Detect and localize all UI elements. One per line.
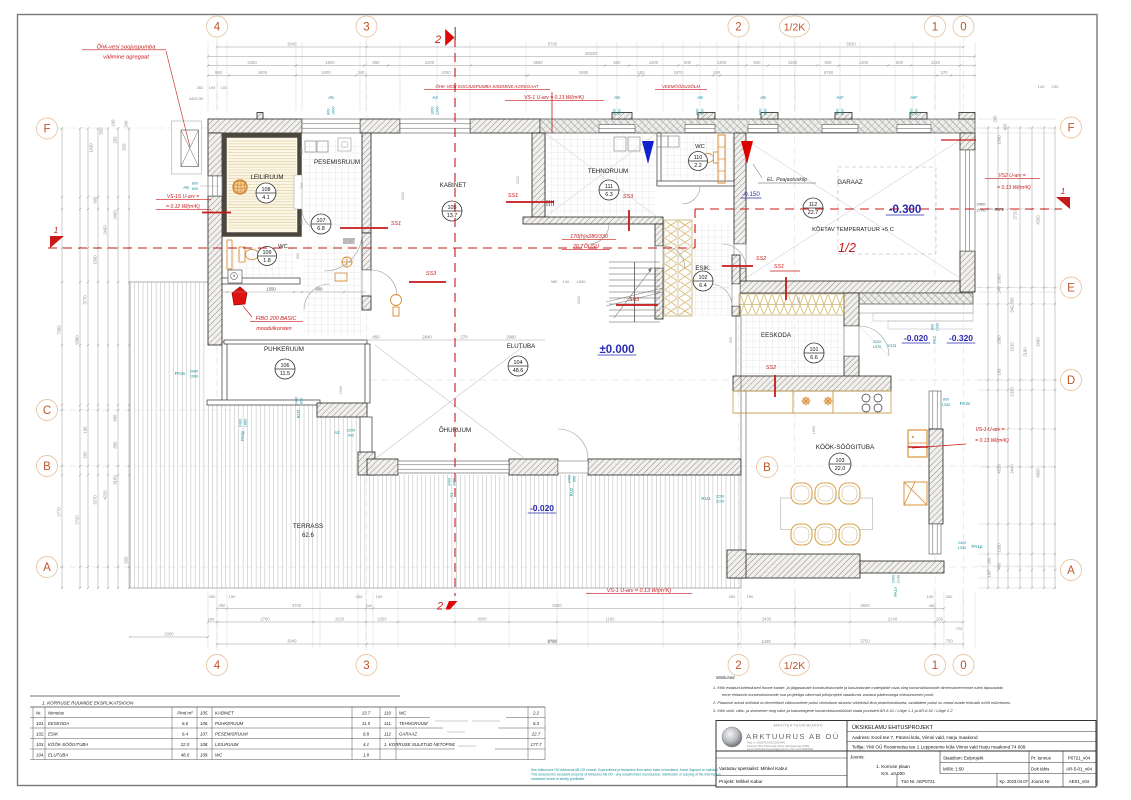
- fridge: [908, 430, 927, 457]
- svg-text:1300: 1300: [649, 60, 659, 65]
- svg-text:1800: 1800: [258, 70, 268, 75]
- svg-text:260: 260: [993, 115, 998, 123]
- svg-text:6.4: 6.4: [699, 283, 707, 289]
- svg-text:260: 260: [83, 451, 88, 459]
- svg-text:1: 1: [932, 22, 938, 34]
- svg-text:ÜKSIKELAMU EHITUSPROJEKT: ÜKSIKELAMU EHITUSPROJEKT: [852, 724, 934, 731]
- section marker 1 left: [50, 236, 64, 248]
- svg-text:22.0: 22.0: [835, 466, 846, 472]
- svg-text:Õhk-vesi soojuspumba: Õhk-vesi soojuspumba: [97, 44, 157, 51]
- svg-text:A R H I T E K T U U R I B Ü R: A R H I T E K T U U R I B Ü R O O: [773, 724, 823, 728]
- svg-text:LEILIRUUM: LEILIRUUM: [215, 742, 239, 747]
- svg-text:250: 250: [113, 136, 118, 144]
- svg-text:920: 920: [122, 143, 127, 151]
- svg-text:-0.020: -0.020: [530, 503, 554, 513]
- svg-text:RU2: RU2: [569, 487, 574, 496]
- svg-text:-0.300: -0.300: [889, 204, 922, 216]
- svg-text:A6: A6: [697, 95, 703, 100]
- svg-text:800: 800: [192, 182, 198, 186]
- svg-text:6.3: 6.3: [605, 192, 613, 198]
- svg-text:3400: 3400: [448, 478, 452, 486]
- svg-text:0: 0: [960, 22, 966, 34]
- svg-text:600: 600: [896, 60, 904, 65]
- svg-text:F: F: [43, 124, 50, 136]
- svg-text:101.: 101.: [36, 721, 45, 726]
- svg-text:1090: 1090: [93, 255, 98, 265]
- svg-text:3280: 3280: [400, 191, 405, 200]
- svg-text:-0.150: -0.150: [742, 191, 760, 198]
- section marker 1 right: [1056, 197, 1070, 209]
- svg-text:106: 106: [281, 363, 290, 369]
- top wall windows west: [302, 119, 360, 133]
- tile grids: [303, 140, 360, 230]
- svg-text:1. Kõik esitatud lahendused h: 1. Kõik esitatud lahendused hoone kande-…: [713, 685, 1004, 690]
- svg-text:SS2: SS2: [766, 365, 776, 371]
- svg-text:A6*: A6*: [836, 95, 844, 100]
- svg-text:SS1: SS1: [508, 193, 518, 199]
- svg-text:2760: 2760: [260, 617, 270, 622]
- svg-text:ÕHK-VESI SOOJUSPUMBA SISEMINE: ÕHK-VESI SOOJUSPUMBA SISEMINE AGREGAAT: [435, 84, 538, 89]
- svg-text:Tellija: YMI OÜ Roosimetsa tee: Tellija: YMI OÜ Roosimetsa tee 1 Leppnee…: [852, 744, 1026, 750]
- axis circles right: [1061, 117, 1082, 138]
- esik west wall: [655, 224, 663, 246]
- dining table: [781, 498, 873, 530]
- svg-text:2700: 2700: [977, 208, 987, 213]
- svg-text:1060: 1060: [997, 274, 1002, 284]
- svg-text:20 TÕUSU: 20 TÕUSU: [572, 243, 599, 250]
- svg-text:Kp. 2023.04.07: Kp. 2023.04.07: [1000, 779, 1029, 784]
- svg-text:5830: 5830: [846, 42, 856, 47]
- svg-text:2140: 2140: [888, 617, 898, 622]
- svg-text:2400: 2400: [190, 370, 198, 374]
- svg-text:5790: 5790: [824, 70, 834, 75]
- svg-text:2.2: 2.2: [532, 711, 540, 716]
- svg-text:750: 750: [946, 639, 954, 644]
- sauna door gap: [294, 175, 302, 209]
- svg-text:2: 2: [735, 22, 741, 34]
- left dimension chains: [61, 129, 63, 589]
- svg-text:450: 450: [219, 603, 227, 608]
- svg-text:Aadress: Kooli tee 7, Püünsi k: Aadress: Kooli tee 7, Püünsi küla, Viims…: [852, 735, 978, 740]
- svg-text:13.7: 13.7: [447, 213, 458, 219]
- svg-text:2: 2: [434, 34, 441, 46]
- svg-text:3700: 3700: [292, 603, 302, 608]
- garage right wall: [960, 133, 975, 150]
- svg-text:RU2: RU2: [296, 409, 301, 418]
- svg-text:22.7: 22.7: [531, 732, 541, 737]
- svg-text:7360: 7360: [57, 325, 62, 335]
- kitchen top wall: [733, 376, 891, 391]
- sauna stove: [233, 180, 247, 194]
- svg-text:650: 650: [614, 60, 622, 65]
- svg-text:WC: WC: [215, 753, 223, 758]
- svg-text:930: 930: [728, 336, 733, 343]
- svg-text:2090: 2090: [164, 632, 174, 637]
- svg-text:3770: 3770: [83, 295, 88, 305]
- chimney FIBO: [232, 287, 247, 305]
- svg-text:-0.320: -0.320: [949, 333, 973, 343]
- svg-text:PA3v: PA3v: [175, 371, 186, 376]
- svg-text:2070: 2070: [93, 495, 98, 505]
- svg-text:GARAAZ: GARAAZ: [399, 732, 417, 737]
- svg-text:2. Plaanisel antud mõõdud on: 2. Plaanisel antud mõõdud on lineehitise…: [712, 700, 1011, 705]
- pesemisruum east wall: [362, 133, 371, 233]
- svg-text:Pr. tunnus: Pr. tunnus: [1031, 756, 1052, 761]
- svg-text:1600: 1600: [321, 70, 331, 75]
- svg-text:LEILIRUUM: LEILIRUUM: [250, 174, 283, 181]
- svg-text:PESEMISRUUM: PESEMISRUUM: [314, 159, 360, 166]
- svg-text:2380: 2380: [997, 335, 1002, 345]
- svg-text:Km. ±0.000: Km. ±0.000: [881, 771, 905, 776]
- wc110 fixtures: [657, 136, 668, 147]
- svg-text:SS1: SS1: [391, 221, 401, 227]
- svg-text:3750: 3750: [860, 639, 870, 644]
- svg-text:A6: A6: [760, 95, 766, 100]
- svg-text:Staadium: Eelprojekt: Staadium: Eelprojekt: [943, 756, 984, 761]
- south window: [398, 461, 509, 473]
- svg-text:2200: 2200: [716, 495, 724, 499]
- right dimension chains: [987, 128, 989, 589]
- svg-text:1300: 1300: [717, 60, 727, 65]
- south wall segments: [367, 459, 398, 475]
- svg-text:1600: 1600: [431, 107, 435, 115]
- svg-text:Dok tähis: Dok tähis: [1031, 767, 1050, 772]
- svg-text:108.: 108.: [200, 742, 209, 747]
- kitchen counters: [733, 391, 793, 413]
- svg-text:800: 800: [315, 287, 323, 292]
- svg-text:GARAAZ: GARAAZ: [837, 179, 863, 186]
- svg-text:VS-1 U-arv =: VS-1 U-arv =: [975, 427, 1004, 433]
- svg-text:1430: 1430: [89, 143, 94, 153]
- svg-text:AE01_v04: AE01_v04: [1069, 779, 1090, 784]
- stairs: [609, 262, 660, 322]
- svg-text:4.1: 4.1: [363, 742, 370, 747]
- svg-text:980: 980: [551, 279, 558, 284]
- garage ceiling dashed rect: [838, 167, 936, 254]
- svg-text:600: 600: [841, 109, 845, 115]
- svg-text:välimine agregaat: välimine agregaat: [103, 55, 149, 61]
- svg-text:A6*: A6*: [910, 95, 918, 100]
- svg-text:PA2v: PA2v: [960, 401, 971, 406]
- garage west wall: [734, 133, 746, 244]
- svg-text:13.7: 13.7: [362, 711, 371, 716]
- svg-text:2.2: 2.2: [694, 163, 702, 169]
- svg-text:A1: A1: [449, 492, 454, 498]
- tehnoruum equipment: [628, 137, 640, 151]
- svg-text:4520: 4520: [997, 464, 1002, 474]
- svg-text:WC: WC: [399, 711, 407, 716]
- svg-text:2400: 2400: [295, 397, 299, 405]
- svg-text:6.6: 6.6: [182, 721, 189, 726]
- svg-text:EESKODA: EESKODA: [761, 332, 792, 339]
- svg-text:enne ehitamist konstruktsiooni: enne ehitamist konstruktsioonide osa pro…: [722, 692, 934, 697]
- svg-text:107.: 107.: [200, 732, 209, 737]
- svg-text:1330: 1330: [958, 546, 966, 550]
- svg-text:TEHNORUUM: TEHNORUUM: [399, 721, 428, 726]
- tall cabinet orange: [718, 135, 725, 183]
- svg-text:1870: 1870: [673, 70, 683, 75]
- svg-text:PA3p: PA3p: [240, 430, 245, 441]
- svg-text:950: 950: [299, 218, 304, 225]
- svg-text:WC: WC: [695, 144, 705, 150]
- svg-text:E-post arhitektuuriprojekt@gm: E-post arhitektuuriprojekt@gmail.com Tel…: [747, 747, 814, 751]
- svg-text:3400: 3400: [762, 617, 772, 622]
- axis circles bottom: [207, 655, 228, 676]
- exterior top wall: [208, 119, 302, 133]
- top wall pilasters: [257, 113, 263, 120]
- svg-text:1330: 1330: [1010, 387, 1015, 397]
- svg-text:100: 100: [638, 70, 646, 75]
- svg-text:Projekt: Mihkel Kabur: Projekt: Mihkel Kabur: [719, 779, 763, 784]
- svg-text:Joonis:: Joonis:: [850, 755, 865, 760]
- svg-text:9760: 9760: [547, 639, 557, 644]
- svg-text:3: 3: [363, 660, 369, 672]
- svg-text:B: B: [43, 461, 51, 473]
- top dimension chains: [217, 46, 964, 48]
- svg-text:TERRASS: TERRASS: [293, 523, 323, 530]
- svg-text:600: 600: [825, 60, 833, 65]
- svg-text:260: 260: [209, 594, 216, 599]
- svg-text:240: 240: [366, 603, 373, 608]
- tehnoruum left wall: [540, 133, 545, 217]
- pantry shelves: [904, 482, 927, 505]
- sauna walls dark: [225, 136, 300, 235]
- svg-text:2120: 2120: [716, 500, 724, 504]
- svg-text:800: 800: [836, 109, 840, 115]
- svg-text:= 0.13 Wi(m²K): = 0.13 Wi(m²K): [975, 438, 1009, 444]
- svg-text:900: 900: [295, 252, 300, 259]
- svg-text:See Arktuuruse OÜ Arktuurus AB: See Arktuuruse OÜ Arktuurus AB OÜ omand.…: [531, 768, 718, 772]
- svg-text:240: 240: [358, 70, 366, 75]
- svg-text:600: 600: [915, 109, 919, 115]
- svg-text:600: 600: [754, 60, 762, 65]
- puhkeruum bottom thin wall: [207, 400, 320, 405]
- svg-text:KABINET: KABINET: [440, 182, 467, 189]
- svg-text:ELUTUBA: ELUTUBA: [507, 343, 536, 350]
- svg-text:1: 1: [1061, 187, 1065, 196]
- svg-text:900: 900: [573, 476, 577, 482]
- svg-text:101: 101: [810, 347, 819, 353]
- svg-text:GV1: GV1: [994, 207, 1004, 212]
- svg-text:270: 270: [460, 335, 468, 340]
- svg-text:103.: 103.: [36, 742, 45, 747]
- svg-text:160: 160: [936, 617, 944, 622]
- boiler box: [228, 270, 242, 283]
- wc110 walls: [657, 133, 661, 185]
- svg-text:104: 104: [514, 360, 523, 366]
- svg-text:6.8: 6.8: [317, 226, 325, 232]
- svg-text:3000: 3000: [453, 478, 457, 486]
- entrance door arc: [859, 326, 889, 356]
- corridor sink: [391, 295, 402, 306]
- svg-text:190: 190: [83, 426, 88, 434]
- svg-text:9380: 9380: [552, 603, 562, 608]
- wc109 fixtures: [227, 240, 232, 269]
- svg-text:PA2: PA2: [932, 336, 937, 344]
- svg-text:800: 800: [327, 109, 331, 115]
- svg-text:1/2K: 1/2K: [784, 660, 806, 672]
- porch wall block: [317, 403, 367, 417]
- svg-text:1800: 1800: [325, 60, 335, 65]
- svg-text:3940: 3940: [287, 42, 297, 47]
- svg-text:110: 110: [384, 711, 392, 716]
- svg-text:2050: 2050: [338, 385, 343, 394]
- svg-text:AR-5-01_v04: AR-5-01_v04: [1066, 767, 1092, 772]
- svg-text:2980: 2980: [506, 335, 516, 340]
- garage diagonals: [746, 140, 960, 278]
- svg-text:900: 900: [348, 434, 354, 438]
- svg-text:600: 600: [192, 187, 198, 191]
- tehnoruum diagonals: [545, 133, 657, 217]
- svg-text:ARKTUURUS AB OÜ: ARKTUURUS AB OÜ: [746, 732, 840, 741]
- svg-text:ELUTUBA: ELUTUBA: [48, 753, 68, 758]
- svg-text:Mõõt: 1:50: Mõõt: 1:50: [943, 767, 964, 772]
- svg-text:Joonis Nr.: Joonis Nr.: [1031, 779, 1051, 784]
- svg-text:-0.020: -0.020: [904, 333, 928, 343]
- svg-text:111.: 111.: [384, 721, 392, 726]
- svg-text:2400: 2400: [958, 541, 966, 545]
- svg-text:104.: 104.: [36, 753, 45, 758]
- svg-text:20120: 20120: [585, 51, 597, 56]
- porch slab right of eeskoda: [851, 293, 973, 304]
- svg-text:1430: 1430: [761, 639, 771, 644]
- svg-text:EESKODA: EESKODA: [48, 721, 69, 726]
- svg-text:190: 190: [229, 594, 236, 599]
- svg-text:900: 900: [300, 398, 304, 404]
- svg-text:340,506: 340,506: [1010, 297, 1015, 313]
- EL Peajaotuskilp triangle red: [741, 141, 753, 164]
- svg-text:1/2K: 1/2K: [784, 22, 806, 34]
- section line 1-1 dashed: [48, 247, 695, 249]
- blue triangle window marker: [642, 141, 654, 164]
- svg-text:KÖÖK-SÖÖGITUBA: KÖÖK-SÖÖGITUBA: [816, 443, 875, 451]
- svg-text:22.0: 22.0: [180, 742, 190, 747]
- garage bottom wall: [740, 281, 960, 293]
- eeskoda closet tan: [739, 294, 844, 315]
- svg-text:11.5: 11.5: [280, 371, 290, 377]
- svg-text:720: 720: [956, 626, 963, 631]
- svg-text:E: E: [1067, 283, 1075, 295]
- left exterior wall: [208, 133, 222, 176]
- kitchen west small wall: [727, 550, 746, 578]
- eeskoda right wall: [844, 293, 859, 326]
- svg-text:1880: 1880: [244, 419, 248, 427]
- svg-text:260: 260: [946, 594, 953, 599]
- svg-text:2200: 2200: [425, 60, 435, 65]
- kitchen east walls: [929, 391, 941, 429]
- svg-text:VEEMÕÕDUSÕLM: VEEMÕÕDUSÕLM: [662, 84, 700, 89]
- svg-text:3940: 3940: [287, 639, 297, 644]
- svg-text:1550: 1550: [266, 287, 276, 292]
- svg-text:600: 600: [764, 109, 768, 115]
- svg-text:1180: 1180: [605, 617, 615, 622]
- axis circles top: [207, 16, 228, 37]
- svg-text:2490: 2490: [1036, 337, 1041, 347]
- svg-text:800: 800: [943, 398, 949, 402]
- svg-text:800: 800: [931, 324, 935, 330]
- svg-text:190: 190: [111, 119, 116, 127]
- svg-text:9380: 9380: [75, 335, 80, 345]
- axis circles left: [37, 118, 58, 139]
- svg-text:6.4: 6.4: [182, 732, 189, 737]
- svg-text:1300: 1300: [859, 60, 869, 65]
- svg-text:1. Korruse plaan: 1. Korruse plaan: [876, 764, 910, 769]
- svg-text:6.6: 6.6: [810, 355, 818, 361]
- puhkeruum top wall thin: [224, 340, 367, 344]
- svg-text:370: 370: [941, 70, 949, 75]
- svg-text:190: 190: [376, 594, 383, 599]
- svg-text:600: 600: [93, 196, 98, 204]
- svg-text:2: 2: [735, 660, 741, 672]
- svg-text:Märkused.: Märkused.: [716, 675, 736, 680]
- svg-text:48.6: 48.6: [181, 753, 190, 758]
- svg-text:moodulkorsten: moodulkorsten: [256, 326, 291, 332]
- svg-text:1800: 1800: [811, 425, 816, 434]
- svg-text:650: 650: [124, 556, 129, 564]
- kitchen bottom walls: [729, 554, 860, 578]
- svg-text:1: 1: [54, 226, 58, 235]
- svg-text:260: 260: [987, 557, 992, 565]
- svg-text:4250: 4250: [1036, 215, 1041, 225]
- svg-text:600: 600: [701, 109, 705, 115]
- svg-text:KABINET: KABINET: [215, 711, 234, 716]
- svg-text:4: 4: [214, 660, 221, 672]
- svg-text:1330: 1330: [936, 323, 940, 331]
- svg-text:550: 550: [215, 70, 223, 75]
- svg-text:112: 112: [809, 202, 818, 208]
- svg-text:1.8: 1.8: [363, 753, 370, 758]
- svg-text:700: 700: [299, 182, 304, 189]
- svg-text:500: 500: [684, 60, 692, 65]
- svg-text:260: 260: [197, 85, 204, 90]
- svg-text:Vastutav spetsialist: Mihkel K: Vastutav spetsialist: Mihkel Kabur: [719, 766, 788, 771]
- svg-text:= 0.13 Wi(m²K): = 0.13 Wi(m²K): [997, 185, 1031, 191]
- watermark patches over table: [430, 716, 506, 727]
- svg-text:ESIK: ESIK: [48, 732, 59, 737]
- kabinet right wall: [532, 133, 545, 217]
- svg-text:Nr.: Nr.: [36, 711, 42, 716]
- svg-text:190: 190: [927, 594, 934, 599]
- wc109 walls: [222, 278, 300, 284]
- svg-text:PUHKERUUM: PUHKERUUM: [264, 346, 304, 353]
- svg-text:109: 109: [263, 250, 272, 256]
- svg-text:800: 800: [696, 109, 700, 115]
- svg-text:EL. Peajaotuskilp: EL. Peajaotuskilp: [767, 177, 807, 183]
- axis grid dashed lines: [216, 38, 218, 653]
- svg-text:6.3: 6.3: [533, 721, 540, 726]
- svg-text:2: 2: [436, 601, 443, 613]
- svg-text:940: 940: [299, 148, 304, 155]
- svg-text:2200: 2200: [873, 340, 881, 344]
- svg-text:Töö Nr. AEP0721: Töö Nr. AEP0721: [901, 779, 935, 784]
- svg-text:2190: 2190: [1023, 347, 1028, 357]
- top wall window slots east: [599, 125, 635, 133]
- radiator pesemisruum: [343, 238, 345, 244]
- svg-text:103: 103: [836, 458, 845, 464]
- svg-text:800: 800: [613, 109, 617, 115]
- svg-text:140: 140: [1038, 84, 1045, 89]
- svg-text:600: 600: [618, 109, 622, 115]
- svg-text:1: 1: [932, 660, 938, 672]
- svg-text:800: 800: [910, 109, 914, 115]
- door arcs: [302, 186, 746, 459]
- svg-text:111: 111: [605, 184, 613, 190]
- svg-text:1300: 1300: [788, 60, 798, 65]
- svg-text:102: 102: [699, 275, 708, 281]
- svg-text:PUHKERUUM: PUHKERUUM: [215, 721, 244, 726]
- svg-text:1570: 1570: [873, 345, 881, 349]
- svg-text:SS2: SS2: [756, 256, 766, 262]
